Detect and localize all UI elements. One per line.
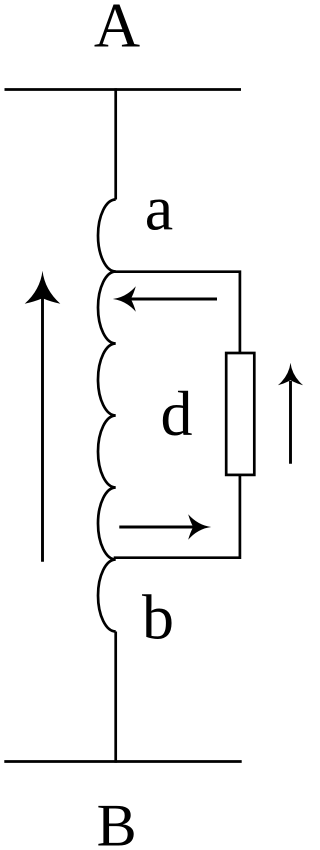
inductor L1 coil (6 half-ellipse turns, taps at cusps) bbox=[98, 200, 116, 632]
arrow: rightward arrow on bottom tap branch bbox=[119, 514, 211, 539]
svg-text:a: a bbox=[145, 173, 173, 244]
arrow: leftward arrow on top tap branch bbox=[113, 286, 217, 311]
svg-text:B: B bbox=[97, 793, 137, 850]
wire: top vertical from rail to inductor bbox=[114, 88, 117, 199]
wire: bottom vertical from inductor to rail bbox=[114, 632, 117, 763]
resistor R (rectangle on right branch) bbox=[226, 353, 254, 475]
arrow: small upward arrow right of resistor bbox=[278, 363, 303, 464]
wire: tap loop (top tap, right branch, bottom tap) bbox=[114, 272, 240, 558]
svg-text:A: A bbox=[94, 0, 140, 61]
svg-text:d: d bbox=[161, 378, 193, 449]
wire: bottom rail bbox=[4, 760, 241, 763]
svg-text:b: b bbox=[142, 582, 174, 653]
wire: top rail bbox=[5, 88, 242, 91]
arrow: long upward current arrow at far left bbox=[25, 271, 61, 562]
